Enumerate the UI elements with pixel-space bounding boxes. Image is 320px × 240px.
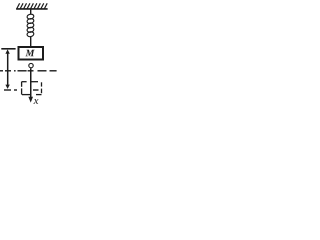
left reference level line [1,48,15,50]
up arrowhead [5,49,9,53]
label M [25,50,34,56]
ceiling (fixed support) line [16,8,47,10]
ceiling hatch marks [17,3,47,8]
phantom displaced mass box (dashed), top edge [22,82,42,95]
equilibrium circle O [29,63,33,67]
bottom arrowhead (x axis) [28,97,33,103]
label x [34,99,39,104]
middle dashed level line (equilibrium) [0,70,57,72]
down arrowhead (left arrow) [5,85,9,89]
spring bottom stub wire [30,36,32,47]
phantom box bottom edge [36,94,42,96]
spring top stub wire [30,9,32,15]
left double arrow shaft [7,53,9,86]
spring coil [27,14,35,38]
phantom box right edge [41,82,43,86]
lower dashed level line [4,89,39,91]
phantom box left edge [21,82,23,87]
mass box M [19,47,44,60]
centre axis line [30,68,32,97]
